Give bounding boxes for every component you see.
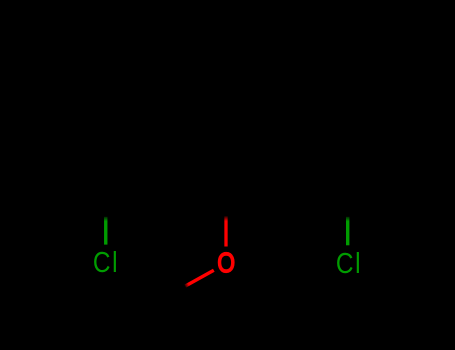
atom label Cl (left chlorine) [93,246,118,278]
bond O-CH3 (oxygen half, red, diagonal to methyl) [185,270,214,286]
svg-text:C: C [93,246,111,278]
svg-text:l: l [355,247,360,279]
svg-text:l: l [112,246,117,278]
bond C1-Cl left (chlorine half, green) [104,217,107,245]
carbon skeleton (black bonds, invisible on black background) [106,175,348,309]
bond C9-O (oxygen half, red, vertical) [224,216,227,246]
svg-text:O: O [217,248,235,279]
atom label O (methoxy oxygen) [217,248,235,279]
bond C8-Cl right (chlorine half, green) [346,217,349,246]
atom label Cl (right chlorine) [336,247,361,279]
svg-text:C: C [336,247,354,279]
